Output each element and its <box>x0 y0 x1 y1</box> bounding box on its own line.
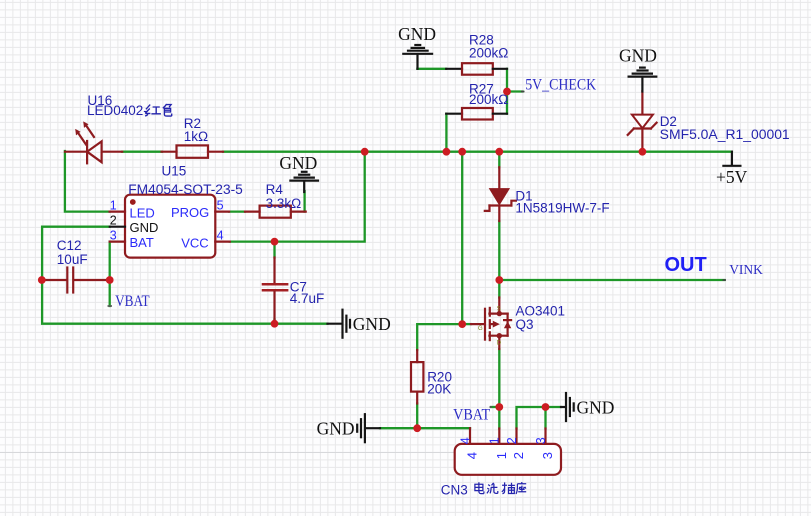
wire R27 left down to bus <box>445 114 447 152</box>
svg-text:GND: GND <box>353 314 391 334</box>
pin 2 GND <box>110 213 159 235</box>
svg-text:Q3: Q3 <box>516 317 534 332</box>
svg-text:CN3: CN3 <box>441 483 468 498</box>
svg-text:3: 3 <box>534 437 548 444</box>
svg-text:10uF: 10uF <box>57 252 88 267</box>
wire main +5V bus y=152 <box>223 151 732 153</box>
svg-text:R4: R4 <box>266 182 284 197</box>
svg-text:2: 2 <box>110 213 117 227</box>
wire OUT to VINK <box>499 279 724 281</box>
svg-text:4: 4 <box>217 228 224 242</box>
svg-text:OUT: OUT <box>665 254 707 276</box>
svg-text:G: G <box>478 326 483 332</box>
svg-text:C12: C12 <box>57 238 82 253</box>
svg-text:2: 2 <box>511 452 526 459</box>
wire CN3 pin3 vertical <box>544 407 546 429</box>
svg-text:2: 2 <box>505 437 519 444</box>
svg-text:4.7uF: 4.7uF <box>290 291 325 306</box>
pin 1 LED <box>110 198 155 220</box>
connector CN3 <box>455 428 561 475</box>
diode D1 1N5819 <box>485 167 516 221</box>
svg-text:LED0402-: LED0402- <box>87 103 148 118</box>
svg-text:+5V: +5V <box>716 167 748 187</box>
svg-text:3: 3 <box>540 452 555 459</box>
capacitor C12 <box>42 268 110 293</box>
svg-text:VINK: VINK <box>729 262 763 277</box>
resistor R20 <box>411 350 423 404</box>
svg-text:VBAT: VBAT <box>453 406 490 423</box>
LED U16 <box>65 121 122 163</box>
svg-text:3.3kΩ: 3.3kΩ <box>266 196 302 211</box>
wire bus down to Q3 gate node <box>461 152 463 324</box>
svg-text:SMF5.0A_R1_00001: SMF5.0A_R1_00001 <box>660 127 790 142</box>
net label VBAT left <box>108 293 150 310</box>
svg-text:200kΩ: 200kΩ <box>469 45 508 60</box>
wire CN3 pin2/pin3 to GND net <box>517 407 562 429</box>
wire R28 right down to R27 right <box>506 69 508 114</box>
pin 3 BAT <box>110 229 154 250</box>
net label 5V_CHECK <box>521 76 597 93</box>
svg-text:GND: GND <box>279 153 317 173</box>
svg-text:1: 1 <box>494 452 509 459</box>
svg-text:1N5819HW-7-F: 1N5819HW-7-F <box>515 200 609 215</box>
svg-text:GND: GND <box>130 220 159 235</box>
wire pin3 BAT down to VBAT node <box>109 242 111 280</box>
svg-text:4: 4 <box>458 437 472 444</box>
svg-text:5V_CHECK: 5V_CHECK <box>525 76 597 93</box>
svg-text:U15: U15 <box>162 164 187 179</box>
op-amp U15 FM4054 body <box>125 195 215 258</box>
resistor R2 <box>162 145 223 157</box>
diode D2 TVS <box>628 91 657 152</box>
wire bus to D1 top <box>498 152 500 168</box>
svg-text:1: 1 <box>110 198 117 212</box>
ground GND1 above R28 <box>398 24 436 69</box>
wire gate node to gate pin <box>462 323 471 325</box>
svg-text:5: 5 <box>217 198 224 212</box>
svg-text:VCC: VCC <box>181 235 208 250</box>
wire pin4 VCC run and up to bus <box>230 152 365 242</box>
ground GND4 bottom left <box>317 414 380 442</box>
ground GND2 above D2 <box>619 46 657 92</box>
sheet major grid line <box>0 452 811 453</box>
ground GND above R4 <box>279 153 318 192</box>
svg-text:200kΩ: 200kΩ <box>469 92 508 107</box>
pin 5 PROG <box>171 198 229 220</box>
resistor R28 <box>446 63 507 74</box>
wire pin5 to R4 <box>229 210 245 212</box>
capacitor C7 <box>262 258 289 320</box>
CJK glyphs dian-chi-cha-zuo for CN3 label <box>475 482 526 494</box>
svg-text:BAT: BAT <box>130 235 154 250</box>
svg-text:1: 1 <box>488 437 502 444</box>
resistor R4 <box>245 206 306 218</box>
wire 5V_CHECK stub <box>507 90 523 92</box>
svg-text:FM4054-SOT-23-5: FM4054-SOT-23-5 <box>128 182 243 197</box>
wire pin2 GND net down-left and bottom bus to C7/GND <box>42 227 327 324</box>
svg-text:S: S <box>497 306 501 312</box>
wire R20 bottom to GND bus <box>416 404 418 429</box>
svg-text:LED: LED <box>130 206 155 221</box>
svg-text:GND: GND <box>577 398 615 418</box>
svg-text:20K: 20K <box>427 381 451 396</box>
CJK glyphs hong-se for U16 value <box>145 104 172 116</box>
svg-text:VBAT: VBAT <box>115 293 150 310</box>
svg-text:GND: GND <box>317 419 355 439</box>
net label VINK <box>723 262 764 280</box>
CN3 pin names inside body <box>465 452 556 459</box>
svg-text:GND: GND <box>619 46 657 66</box>
wire C7 top stub <box>273 242 275 258</box>
svg-text:D: D <box>497 340 502 346</box>
wire C7 bottom stub <box>273 320 275 324</box>
wire D1 bottom to OUT node <box>498 221 500 280</box>
svg-text:AO3401: AO3401 <box>516 303 566 318</box>
ground GND5 near CN3 <box>561 393 614 421</box>
wire VBAT2 stub <box>491 406 499 408</box>
svg-text:PROG: PROG <box>171 205 209 220</box>
wire LED left to pin1 of U15 <box>65 151 110 212</box>
svg-text:1kΩ: 1kΩ <box>184 129 208 144</box>
wire LED to R2 <box>122 151 162 153</box>
CN3 pin numbers above body <box>458 437 548 444</box>
wire Q3 drain down to CN3 pin1 <box>498 349 500 429</box>
svg-text:4: 4 <box>465 452 480 459</box>
pin 4 VCC <box>181 228 230 250</box>
wire GND1 to R28 <box>417 68 446 70</box>
svg-text:3: 3 <box>110 229 117 243</box>
wire OUT node down to Q3 source <box>498 280 500 298</box>
wire R4 right up to GND <box>303 191 305 212</box>
transistor Q3 AO3401 <box>471 298 511 350</box>
wire VBAT stub <box>109 280 111 306</box>
ground GND3 right of C7 <box>328 310 391 338</box>
svg-text:GND: GND <box>398 24 436 44</box>
wire bottom GND bus to CN3 pin4 <box>380 427 470 429</box>
net label VBAT bottom <box>453 406 492 423</box>
power +5V <box>716 152 748 187</box>
resistor R27 <box>446 108 507 120</box>
wire gate node left to R20 top <box>417 324 462 350</box>
